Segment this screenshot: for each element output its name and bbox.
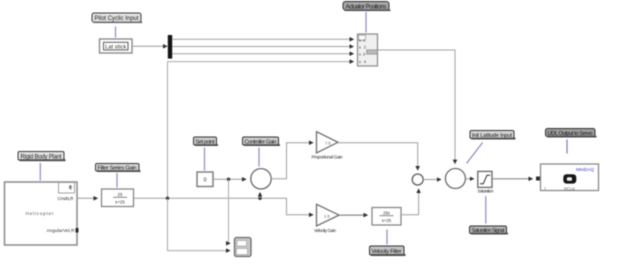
svg-text:25: 25 [118,192,123,197]
gain triangle G2 (Velocity Gain) [314,204,339,233]
svg-text:MiniDAQ: MiniDAQ [576,167,595,172]
sum junction S3 [445,169,465,189]
wire S3 to saturation [465,178,473,180]
annotation line to filter F1 [116,173,118,188]
input block B1 (From Workspace) [100,39,133,53]
filter block F2 (velocity filter) [372,208,401,226]
annotation line to DAC [566,140,568,154]
wire selector output down to sum S3 [378,50,456,164]
junction constant/scope branch [227,178,230,181]
svg-text:UDL Output to Servo: UDL Output to Servo [548,131,593,137]
annotation label L6 "Controller Gain" [243,137,281,146]
svg-text:Cmds,R: Cmds,R [58,196,75,201]
svg-text:PCI-6: PCI-6 [564,186,575,191]
wire B1 to demux bar [132,45,167,47]
annotation line to plant block B3 [39,163,41,181]
wire G1 to sum S2 top [338,143,418,170]
sum junction S1 [251,169,271,189]
annotation label L3 "Rigid Body Plant" [18,152,66,162]
wire F2 up to sum S2 bottom [401,189,419,215]
filter block F1 (25/(s+25)) [102,189,134,207]
wire G2 to filter F2 [339,214,368,216]
svg-text:Actuator Positions: Actuator Positions [346,4,387,10]
svg-text:Init Latitude Input: Init Latitude Input [472,133,512,139]
annotation label L2 "Actuator Positions" [343,2,391,12]
svg-text:s3: s3 [359,53,365,57]
annotation line to constant block [204,148,206,171]
scope block (2 inputs) [235,238,252,257]
svg-text:s+25: s+25 [382,218,392,223]
svg-text:7.5: 7.5 [325,141,331,146]
wire demux out 3 to selector [172,53,353,55]
junction main/sum1 bottom [258,197,261,200]
annotation diagonal line to sum S3 [467,143,483,164]
wire up into sum S1 bottom [259,193,261,199]
annotation line to sum S1 [258,148,260,167]
svg-text:Saturation: Saturation [478,189,495,194]
selector block B2 [358,34,378,66]
annotation line to selector B2 [365,12,367,33]
plant subsystem block B3 [5,182,79,245]
svg-text:Controller Gain: Controller Gain [245,140,277,146]
wire branch down to scope input 1 [229,179,231,243]
gain triangle G1 (Proportional Gain) [312,132,343,160]
wire S2 to sum S3 [423,179,441,181]
annotation label L10 "UDL Output to Servo" [546,129,597,138]
wire feedback up from main line to selector input 4 [168,62,354,199]
annotation label L8 "Init Latitude Input" [470,131,516,140]
svg-text:Lat stick: Lat stick [105,45,126,51]
wire sum S1 to proportional gain [271,143,313,179]
svg-text:s+25: s+25 [115,199,125,204]
svg-text:Rigid Body Plant: Rigid Body Plant [21,154,62,160]
annotation label L1 "Pilot Cyclic Input" [92,13,142,23]
annotation label L4 "Filter Series Gain" [96,164,141,173]
svg-text:Velocity Filter: Velocity Filter [372,249,402,255]
annotation label L5 "Set point" [194,137,219,146]
junction main/feedback [166,197,169,200]
saturation block [478,171,495,193]
main wire from F1 across to velocity gain [134,198,314,215]
svg-text:1: 1 [544,187,546,191]
annotation line to saturation [485,196,487,224]
wire plant to filter F1 [77,197,98,199]
svg-text:Proportional Gain: Proportional Gain [312,155,343,160]
svg-text:Set point: Set point [196,140,215,146]
demux bar [168,35,172,59]
svg-text:Pilot Cyclic Input: Pilot Cyclic Input [95,16,139,22]
wire demux out 2 to selector [172,46,353,48]
svg-text:25s: 25s [383,211,390,216]
wire feedback down to scope input 2 [168,198,231,250]
svg-text:AngularVel,R: AngularVel,R [47,228,76,233]
svg-text:Helicopter: Helicopter [26,211,54,216]
svg-text:1.5: 1.5 [324,213,330,218]
annotation line to F2 [386,230,388,245]
svg-text:0: 0 [204,178,207,184]
wire saturation to DAC [492,178,533,180]
annotation label L9 "Saturation Signal" [470,226,509,235]
annotation line to block B1 [115,27,117,38]
svg-text:Saturation Signal: Saturation Signal [472,228,505,234]
svg-text:Filter Series Gain: Filter Series Gain [98,166,137,172]
sum junction S2 [412,174,423,185]
svg-text:Velocity Gain: Velocity Gain [314,228,336,233]
annotation label L7 "Velocity Filter" [370,246,406,256]
constant block B5 [197,172,213,187]
DAC input port nub [536,177,541,181]
wire demux out 1 to selector [172,38,353,40]
svg-text:s1: s1 [359,38,365,42]
wire constant to sum S1 [213,178,246,180]
DAC output block [541,164,599,191]
